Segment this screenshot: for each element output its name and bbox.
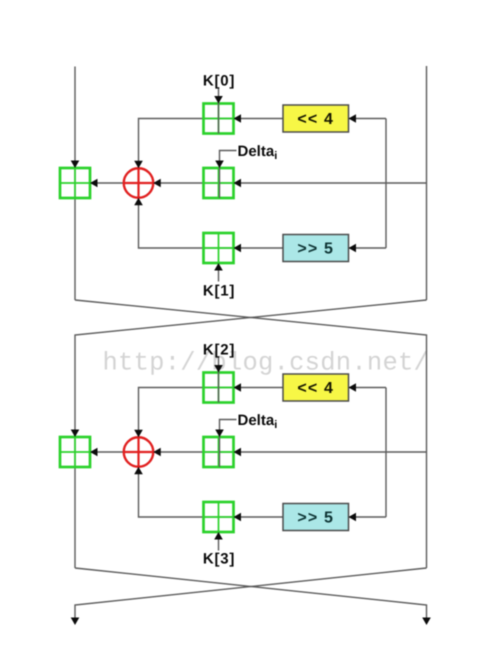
svg-text:K[0]: K[0] [203, 73, 235, 90]
arrowhead round2: into key adder K[3] [234, 513, 242, 522]
arrowhead: right output [422, 618, 431, 626]
arrowhead K[1] into adder [214, 263, 223, 271]
xor round2 [124, 437, 154, 467]
wire round1: shift-right through key adder, up to xor [139, 199, 284, 248]
arrowhead round2: into shift-left box [349, 383, 357, 392]
wire Delta_i round1 elbow through adder [220, 151, 237, 199]
wire round1: right bus through Delta adder to xor [154, 182, 426, 184]
wire K[3] label to adder [218, 539, 220, 551]
arrowhead round1: into xor bottom [134, 198, 143, 206]
arrowhead round1: into key adder K[1] [234, 244, 242, 253]
svg-text:>> 5: >> 5 [297, 241, 334, 258]
adder (left output) round1 [60, 168, 90, 198]
arrowhead round2: into left adder right side [90, 448, 98, 457]
wire: left input vertical through round1 left adder [74, 67, 76, 301]
arrowhead round1: into left adder top [71, 161, 80, 169]
svg-text:<< 4: << 4 [297, 380, 334, 397]
svg-text:K[1]: K[1] [203, 283, 235, 300]
svg-text:<< 4: << 4 [297, 111, 334, 128]
svg-text:K[3]: K[3] [203, 551, 235, 568]
wire round2: branch top into shift-left box [350, 387, 387, 389]
shift box &gt;&gt;5 round1 [283, 235, 349, 262]
wire round2: right bus through Delta adder to xor [154, 451, 426, 453]
wire: cross2 right-to-left diagonal to left output [75, 568, 427, 619]
wire round2: xor to left adder [91, 451, 124, 453]
adder with key K[1] round1 [204, 233, 234, 263]
shift box &lt;&lt;4 round1 [283, 105, 349, 132]
wire: right input vertical [426, 66, 428, 300]
arrowhead round2: into xor bottom [134, 467, 143, 475]
adder with Delta round2 [204, 437, 234, 467]
wire Delta_i round2 elbow through adder [220, 420, 237, 468]
arrowhead round2: into shift-right box [349, 513, 357, 522]
adder with key K[2] round2 [204, 373, 234, 403]
shift box &lt;&lt;4 round2 [283, 374, 349, 401]
adder with Delta round1 [204, 168, 234, 198]
wire K[1] label to adder [218, 270, 220, 282]
wire round2: shift-right through key adder, up to xor [139, 468, 284, 517]
wire round1: xor to left adder [91, 182, 124, 184]
arrowhead K[0] into adder [214, 96, 223, 104]
wire K[2] label through adder [218, 358, 220, 403]
arrowhead round2: into xor right side [153, 448, 161, 457]
wire round2: branch vertical [385, 388, 387, 518]
wire: cross1 left-to-right diagonal into round2 right bus [75, 300, 427, 568]
arrowhead round1: into shift-left box [349, 114, 357, 123]
wire round1: branch bottom into shift-right box [350, 247, 387, 249]
adder with key K[3] round2 [204, 502, 234, 532]
wire round1: branch top into shift-left box [350, 118, 387, 120]
arrowhead round1: into key adder K[0] [234, 114, 242, 123]
arrowhead round1: into shift-right box [349, 244, 357, 253]
arrowhead round2: into xor top [134, 430, 143, 438]
arrowhead: left output [71, 618, 80, 626]
wire round2: shift-left through key adder, down to xor [139, 388, 284, 437]
svg-text:http://blog.csdn.net/: http://blog.csdn.net/ [103, 349, 430, 378]
arrowhead Delta_i round1 into adder [215, 161, 224, 169]
svg-text:Deltai: Deltai [238, 143, 278, 162]
adder with key K[0] round1 [204, 104, 234, 134]
arrowhead K[3] into adder [214, 532, 223, 540]
arrowhead round1: into Delta adder right side [234, 179, 242, 188]
arrowhead round2: into key adder K[2] [234, 383, 242, 392]
arrowhead round1: into xor right side [153, 179, 161, 188]
shift box &gt;&gt;5 round2 [283, 504, 349, 531]
arrowhead round1: into left adder right side [90, 179, 98, 188]
arrowhead K[2] into adder [214, 365, 223, 373]
wire round2: branch bottom into shift-right box [350, 516, 387, 518]
xor round1 [124, 168, 154, 198]
wire round1: shift-left through key adder, down to xor [139, 119, 284, 168]
arrowhead round1: into xor top [134, 161, 143, 169]
wire: cross2 left-to-right diagonal to right output [75, 568, 427, 619]
wire: cross1 right-to-left diagonal through round2 left adder [75, 300, 427, 568]
svg-text:K[2]: K[2] [203, 342, 235, 359]
wire round1: branch vertical [385, 119, 387, 249]
arrowhead round2: into Delta adder right side [234, 448, 242, 457]
wire K[0] label through adder [218, 89, 220, 134]
svg-text:>> 5: >> 5 [297, 510, 334, 527]
adder (left output) round2 [60, 437, 90, 467]
svg-text:Deltai: Deltai [238, 412, 278, 431]
arrowhead Delta_i round2 into adder [215, 430, 224, 438]
arrowhead round2: into left adder top [71, 430, 80, 438]
